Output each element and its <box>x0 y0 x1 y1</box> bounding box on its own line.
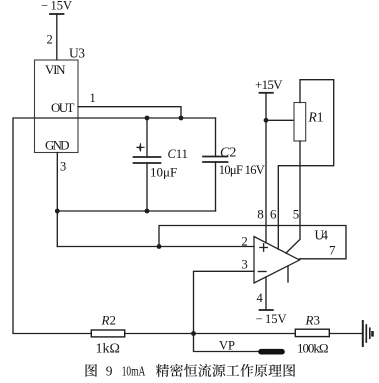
svg-text:2: 2 <box>242 235 248 249</box>
svg-text:R3: R3 <box>305 313 320 328</box>
svg-text:5: 5 <box>293 207 300 222</box>
svg-text:− 15V: − 15V <box>41 0 72 13</box>
svg-text:1: 1 <box>90 91 96 105</box>
svg-text:3: 3 <box>242 258 248 272</box>
svg-text:9: 9 <box>106 364 113 379</box>
svg-text:+: + <box>137 144 143 155</box>
svg-text:+15V: +15V <box>255 77 283 92</box>
svg-text:3: 3 <box>60 160 66 174</box>
svg-text:C11: C11 <box>168 147 188 161</box>
svg-text:4: 4 <box>257 291 264 305</box>
svg-text:1kΩ: 1kΩ <box>96 342 120 357</box>
svg-text:100kΩ: 100kΩ <box>297 340 329 355</box>
svg-text:GND: GND <box>45 138 70 153</box>
svg-text:10μF 16V: 10μF 16V <box>219 163 265 177</box>
svg-text:VIN: VIN <box>45 62 66 77</box>
svg-text:2: 2 <box>47 33 53 47</box>
svg-text:10μF: 10μF <box>150 165 177 180</box>
svg-text:− 15V: − 15V <box>256 312 287 326</box>
svg-text:R2: R2 <box>101 313 116 328</box>
svg-text:6: 6 <box>270 207 277 222</box>
svg-text:VP: VP <box>219 339 235 353</box>
svg-text:8: 8 <box>257 207 264 222</box>
svg-text:OUT: OUT <box>51 100 75 115</box>
svg-text:7: 7 <box>329 243 336 258</box>
svg-text:R1: R1 <box>308 110 324 125</box>
svg-text:U3: U3 <box>69 46 85 61</box>
svg-text:10mA: 10mA <box>122 364 146 379</box>
svg-text:U4: U4 <box>315 228 329 243</box>
svg-text:C2: C2 <box>220 146 236 161</box>
